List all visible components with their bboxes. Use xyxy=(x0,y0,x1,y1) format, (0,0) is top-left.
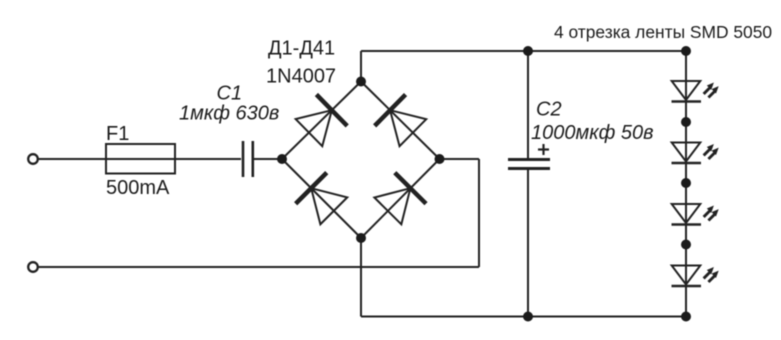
capacitor C2 plates xyxy=(508,160,550,169)
node LED3-LED4 xyxy=(681,240,691,250)
wire upper input to C1 xyxy=(38,158,241,160)
wire C2 top lead xyxy=(527,51,529,158)
node LED top corner xyxy=(681,46,691,56)
diode VD4 bottom-right xyxy=(372,173,426,227)
node C2 bottom junction xyxy=(523,312,533,322)
wire top rail xyxy=(361,50,686,52)
terminal upper input xyxy=(28,154,38,164)
node bridge right xyxy=(435,154,445,164)
svg-text:Д1-Д41: Д1-Д41 xyxy=(268,38,335,60)
svg-text:C1: C1 xyxy=(217,83,243,105)
wire bridge arm bottom-right xyxy=(361,159,440,238)
node bridge left xyxy=(277,154,287,164)
wire bridge arm left-top xyxy=(282,82,361,160)
fuse F1 xyxy=(106,144,175,174)
capacitor C1 plates xyxy=(243,141,253,177)
svg-text:1мкф 630в: 1мкф 630в xyxy=(179,103,279,125)
wire bottom rail xyxy=(361,316,686,318)
wire lower input rail xyxy=(38,266,479,268)
wire right riser xyxy=(478,159,480,267)
wire LED chain vertical xyxy=(685,51,687,317)
wire right node to riser xyxy=(440,158,480,160)
svg-text:1000мкф 50в: 1000мкф 50в xyxy=(531,122,654,144)
svg-text:C2: C2 xyxy=(536,99,562,121)
wire bridge arm left-bottom xyxy=(282,159,361,238)
LED HL1 xyxy=(672,81,719,102)
wire bridge bottom node down xyxy=(360,238,362,317)
svg-text:4 отрезка ленты SMD 5050: 4 отрезка ленты SMD 5050 xyxy=(554,22,772,42)
node LED2-LED3 xyxy=(681,178,691,188)
diode VD3 bottom-left xyxy=(296,173,350,227)
svg-text:1N4007: 1N4007 xyxy=(266,66,336,88)
node bridge top xyxy=(356,77,366,87)
wire C2 bottom lead xyxy=(527,170,529,317)
svg-text:500mA: 500mA xyxy=(106,177,170,199)
svg-text:F1: F1 xyxy=(106,123,129,145)
node C2 top junction xyxy=(523,46,533,56)
diode VD1 top-left xyxy=(294,94,348,148)
LED HL2 xyxy=(672,143,719,164)
node LED bottom corner xyxy=(681,312,691,322)
wire bridge top node up xyxy=(360,51,362,82)
wire bridge arm top-right xyxy=(361,82,440,160)
C2 polarity plus xyxy=(538,144,549,155)
LED HL3 xyxy=(672,204,719,225)
wire C1 to bridge left node xyxy=(254,158,282,160)
terminal lower input xyxy=(28,262,38,272)
node bridge bottom xyxy=(356,233,366,243)
node LED1-LED2 xyxy=(681,117,691,127)
LED HL4 xyxy=(672,266,719,287)
diode VD2 top-right xyxy=(375,95,429,149)
